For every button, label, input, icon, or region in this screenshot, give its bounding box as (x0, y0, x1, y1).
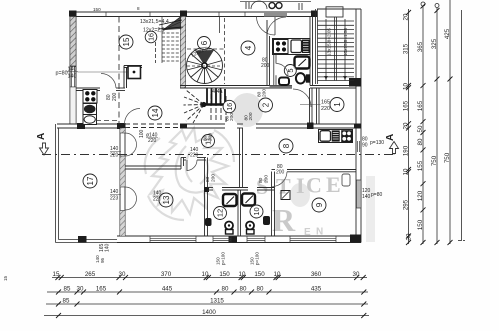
svg-text:10: 10 (274, 271, 281, 278)
kitchen8 counter (319, 130, 353, 143)
svg-text:30: 30 (353, 271, 360, 278)
kitchen8 drainer (332, 130, 340, 141)
svg-text:A: A (385, 134, 396, 141)
section line right jog (393, 150, 395, 155)
svg-text:80: 80 (205, 176, 211, 182)
svg-text:14: 14 (151, 108, 160, 117)
porch twin circles (269, 3, 282, 9)
svg-text:150: 150 (93, 7, 101, 12)
V4 labels (444, 28, 451, 163)
svg-text:315: 315 (403, 43, 410, 54)
svg-text:1315: 1315 (210, 298, 224, 305)
svg-text:p=100: p=100 (255, 252, 260, 265)
row2 labels (64, 286, 322, 293)
V2 ticks (421, 4, 426, 246)
svg-text:220: 220 (190, 153, 199, 159)
section A left arrow (40, 143, 49, 155)
room 1 (330, 98, 344, 112)
stall10 toilet (246, 222, 254, 230)
room9 small box (281, 191, 290, 200)
spiral dense top wedge (195, 50, 214, 66)
L-wall corner x124 (124, 66, 142, 89)
label 140/223 left lower (110, 189, 119, 202)
wall room4/bath5 x267 (267, 20, 270, 86)
svg-text:p=80: p=80 (371, 192, 382, 198)
svg-text:150: 150 (417, 219, 424, 230)
stall10 shower (242, 194, 255, 206)
room 6 (198, 37, 211, 50)
svg-text:p=100: p=100 (221, 252, 226, 265)
svg-text:165: 165 (403, 100, 410, 111)
room 15 (119, 35, 133, 49)
svg-text:10: 10 (252, 207, 261, 215)
watermark right bar (366, 176, 375, 242)
svg-text:325: 325 (431, 38, 438, 49)
bottom wall inner line (117, 235, 361, 237)
stove 4 burners (83, 90, 97, 104)
floor wall B y124 (57, 124, 361, 128)
room 8 (279, 139, 293, 153)
top wall block right (311, 11, 317, 18)
terrace bottom rail (56, 240, 118, 243)
window label 120/140 p=80 (362, 188, 382, 200)
stall12 toilet (225, 222, 233, 230)
hall/room8 wall x241 (240, 128, 243, 188)
svg-text:95: 95 (100, 257, 105, 263)
left wall inner line (75, 17, 77, 125)
svg-text:80: 80 (258, 177, 264, 183)
room 9 (312, 198, 326, 212)
sink white oval (83, 115, 97, 125)
door room2 top arc (293, 89, 311, 107)
row3 labels (63, 298, 225, 305)
faint top texts (93, 6, 244, 12)
room8/room9 wall C y169.5 (272, 170, 357, 172)
svg-text:200: 200 (262, 89, 268, 97)
window right wall kitchen (358, 141, 360, 152)
svg-text:365: 365 (417, 41, 424, 52)
terrace door arcs lower pair (125, 187, 137, 210)
svg-text:120: 120 (417, 190, 424, 201)
stair divider (334, 17, 336, 81)
left wall hatched segment (70, 17, 76, 67)
watermark blob (231, 93, 263, 127)
svg-text:p=130: p=130 (370, 140, 384, 146)
svg-text:30: 30 (119, 271, 126, 278)
room 16 (145, 31, 157, 43)
door room9 arc (272, 172, 287, 187)
svg-text:80: 80 (257, 286, 264, 293)
stair flight arrowheads (324, 76, 328, 80)
svg-text:13x15,8=2,05: 13x15,8=2,05 (327, 28, 332, 56)
label 80/200 winder left (225, 115, 231, 121)
stair top landing notch (326, 7, 343, 17)
label 80/200 room2 top (257, 89, 268, 97)
svg-text:p=80: p=80 (56, 71, 68, 77)
top wall outer line (70, 11, 317, 13)
svg-text:17: 17 (86, 176, 95, 185)
door room11 to room13 leaf+arc (186, 160, 188, 171)
nook door arc (101, 73, 116, 88)
V1 labels (403, 13, 413, 240)
svg-text:155: 155 (417, 160, 424, 171)
wall room1 left x317 (317, 89, 320, 125)
watermark letters EN (304, 227, 323, 239)
svg-text:10: 10 (403, 83, 410, 90)
left wall window 140/140 (70, 66, 76, 87)
stair16 walking line dashed (155, 42, 157, 63)
svg-text:90: 90 (362, 143, 368, 149)
kitchen8 stove (341, 130, 352, 142)
dim line V2 (422, 6, 424, 244)
svg-text:200: 200 (261, 63, 270, 69)
kitchen8 sink (320, 131, 331, 142)
kitchen stove 4 burners (274, 40, 289, 54)
terrace bottom pillar (78, 236, 87, 243)
top wall window ticks (106, 12, 245, 17)
svg-text:1400: 1400 (202, 309, 216, 316)
row1 labels (53, 271, 360, 278)
spiral dashed diameter (187, 65, 223, 67)
svg-text:750: 750 (431, 155, 438, 166)
svg-text:80: 80 (417, 138, 424, 145)
entrance door arc (257, 17, 276, 36)
stall door labels 80/200 (205, 174, 217, 182)
porch door arc (251, 1, 267, 9)
svg-text:4,4a: 4,4a (212, 89, 223, 95)
V2 labels (417, 41, 424, 230)
svg-text:12: 12 (216, 209, 225, 217)
dim line V4 (449, 0, 451, 244)
room 14 (148, 106, 162, 120)
room13 top wall stepped (124, 158, 206, 170)
svg-text:C: C (306, 173, 322, 198)
svg-text:20: 20 (403, 13, 410, 20)
wall bath5/hall x311 (310, 17, 313, 86)
room 2 (259, 98, 273, 112)
porch top edge (240, 1, 311, 3)
bottom wall window room9 (290, 236, 336, 243)
kitchen sink basin (291, 40, 302, 53)
label 80/220 room2 bottom (243, 116, 249, 122)
svg-text:100: 100 (139, 129, 145, 138)
top wall inner line (70, 16, 317, 18)
V2 top circle (421, 2, 425, 6)
label 165/140 bottom (99, 243, 111, 252)
svg-text:50: 50 (417, 125, 424, 132)
room 11 (202, 135, 215, 148)
bottom wall block mid (229, 237, 238, 243)
building left wall lower x120 (120, 128, 125, 236)
svg-text:223: 223 (110, 196, 119, 202)
wall A block at stair (349, 78, 361, 87)
door label 80/200 bath5 (261, 58, 270, 70)
right wall inner line (355, 9, 357, 236)
label o140/220 upper (146, 133, 158, 145)
section A right arrow (390, 142, 399, 154)
svg-text:30: 30 (77, 286, 84, 293)
svg-text:200: 200 (211, 174, 217, 182)
V3 ticks (435, 8, 440, 245)
door arc room4 top (267, 17, 286, 36)
label 80/200 hall right (203, 133, 214, 141)
bath5 left wall (274, 55, 276, 86)
dim row1 (52, 277, 367, 279)
svg-text:295: 295 (403, 199, 410, 210)
svg-text:370: 370 (161, 271, 172, 278)
svg-text:435: 435 (311, 286, 322, 293)
svg-text:150: 150 (219, 271, 230, 278)
wall room2/room1 x310 (310, 88, 313, 124)
stall10 sink (263, 216, 270, 225)
svg-text:T: T (276, 174, 291, 199)
room9 corner box right (342, 174, 350, 186)
svg-text:10: 10 (239, 271, 246, 278)
V1 ticks (406, 10, 411, 245)
svg-text:220: 220 (110, 153, 119, 159)
svg-text:265: 265 (85, 271, 96, 278)
svg-text:6: 6 (200, 40, 209, 45)
dim row3 (46, 303, 368, 305)
stall12 sink (205, 218, 212, 226)
label 165/220 room1 (321, 100, 330, 113)
stair bottom edge (318, 80, 355, 82)
spiral spokes (204, 66, 206, 84)
svg-text:200: 200 (276, 170, 285, 176)
dim line V3 (436, 8, 438, 244)
section line A-A (42, 154, 394, 156)
watermark ornament flourish (145, 128, 234, 220)
watermark letters STICE (256, 172, 341, 199)
mid horizontal wall A y85.5 (180, 86, 356, 89)
room 4 (241, 41, 255, 55)
top wall gray segment (264, 12, 287, 17)
bath5 toilet (296, 73, 305, 83)
stair flight lines (325, 19, 327, 81)
sink dark oval (83, 104, 97, 115)
door labels 80/200 room9 (276, 164, 285, 176)
svg-text:80: 80 (222, 286, 229, 293)
kitchen counter outline (273, 39, 311, 55)
svg-text:165: 165 (417, 100, 424, 111)
left wall lower segment (70, 87, 76, 124)
row2 ticks (56, 290, 366, 295)
stair16 dense hub (164, 16, 181, 30)
svg-text:2: 2 (261, 102, 270, 107)
svg-text:165: 165 (321, 100, 330, 106)
room12 circle (214, 207, 227, 220)
room 13 (159, 193, 173, 207)
circle 16b (223, 100, 235, 112)
svg-text:750: 750 (444, 152, 451, 163)
dashed projection x119 (118, 17, 120, 125)
svg-text:15: 15 (53, 271, 60, 278)
winder handrail thick (204, 103, 227, 106)
svg-text:1: 1 (333, 102, 342, 107)
spiral circle (187, 48, 223, 84)
bottom wall block right corner (350, 235, 361, 243)
V5 end dash (458, 240, 465, 242)
stair left wall x315 (316, 9, 318, 84)
svg-text:9: 9 (315, 202, 324, 207)
right wall outer line (360, 9, 362, 243)
svg-text:190: 190 (403, 145, 410, 156)
entrance door leaf (274, 17, 276, 36)
stair treads (318, 20, 355, 22)
row4 ticks (56, 313, 366, 318)
svg-text:140: 140 (362, 194, 371, 200)
room10 circle (250, 205, 263, 218)
bottom wall window stall10 (247, 236, 265, 243)
door arc bath5 (276, 64, 288, 76)
svg-text:16: 16 (227, 103, 234, 111)
svg-text:4: 4 (244, 45, 253, 50)
wall A gray fill under bath5 (270, 86, 293, 89)
stair top outer line (317, 8, 361, 10)
V4 ticks (448, 77, 453, 246)
svg-text:85: 85 (63, 298, 70, 305)
bath5 sink (279, 78, 289, 86)
svg-text:8: 8 (137, 6, 140, 11)
svg-text:360: 360 (311, 271, 322, 278)
svg-text:10: 10 (202, 271, 209, 278)
svg-text:165: 165 (96, 286, 107, 293)
svg-text:15: 15 (122, 37, 131, 46)
svg-text:30: 30 (406, 233, 413, 240)
svg-text:200: 200 (229, 113, 235, 121)
door arc room14 to room13 (125, 109, 141, 125)
dim row4 (44, 315, 369, 317)
room5 circle (284, 65, 296, 77)
left wall outer line (69, 12, 71, 124)
svg-text:E: E (326, 172, 341, 197)
svg-text:20: 20 (403, 122, 410, 129)
bath stalls top wall y188 (208, 188, 275, 191)
svg-text:80: 80 (240, 286, 247, 293)
svg-text:220: 220 (321, 106, 330, 112)
winder treads vertical (210, 94, 212, 122)
svg-text:220: 220 (148, 138, 157, 144)
label p=80 140/140 (56, 67, 77, 80)
winder hub dot (201, 102, 206, 107)
svg-text:8: 8 (282, 143, 291, 148)
svg-text:16: 16 (148, 33, 155, 41)
svg-text:A: A (36, 133, 47, 140)
label 80/200 below winder A (230, 118, 231, 123)
top wall corner block left (69, 11, 77, 17)
svg-text:150: 150 (254, 271, 265, 278)
svg-text:140: 140 (68, 74, 77, 80)
bottom wall outer line (117, 242, 361, 244)
bottom wall window room13 (150, 236, 196, 243)
stall divider x239 (238, 190, 241, 236)
room9 window right (356, 180, 361, 208)
nook door label 80/200 (106, 92, 118, 101)
small vertical labels below bottom wall (3, 252, 260, 281)
winder top dense treads (207, 89, 225, 105)
room 17 (83, 174, 97, 188)
porch railing ticks (246, 2, 302, 10)
stair16 fan hub lines (163, 17, 181, 30)
svg-text:445: 445 (162, 286, 173, 293)
svg-text:85: 85 (64, 286, 71, 293)
row1 ticks (55, 275, 365, 280)
kitchen drainer dark (302, 40, 310, 54)
bottom wall window stall12 (213, 236, 231, 243)
svg-text:200: 200 (112, 92, 118, 101)
label 140/220 lower (153, 191, 162, 203)
label 140/220 left upper (110, 146, 119, 159)
window label 80/90 p=130 (362, 137, 384, 149)
dim line V5 (461, 10, 463, 241)
V3 labels (431, 38, 438, 166)
label 140/220 hall (190, 147, 199, 159)
dim row2 (47, 291, 368, 293)
svg-text:R: R (272, 202, 296, 238)
row3 ticks (56, 302, 366, 307)
svg-text:200: 200 (248, 112, 254, 120)
svg-text:200: 200 (208, 133, 214, 141)
svg-text:10: 10 (403, 168, 410, 175)
chimney square with dot (128, 66, 141, 79)
svg-text:10x15,8=1,58: 10x15,8=1,58 (343, 28, 348, 56)
svg-text:425: 425 (444, 28, 451, 39)
terrace left rail (56, 124, 59, 243)
V3 top circle (435, 4, 439, 8)
svg-text:13: 13 (162, 195, 171, 204)
bath5 shower (295, 57, 310, 69)
svg-text:140: 140 (105, 243, 111, 252)
svg-text:15: 15 (3, 275, 8, 281)
room13/bath wall x206 (205, 158, 208, 237)
bath wall junction block (204, 187, 209, 192)
spiral hub (202, 63, 207, 68)
svg-text:I: I (296, 173, 305, 198)
wall room15/stair16 x180 (181, 17, 186, 89)
bath/room9 wall x273 (272, 172, 275, 237)
dashed nook line (96, 120, 120, 122)
top wall block mid (180, 11, 187, 17)
dim line V1 (408, 9, 410, 244)
winder radial treads dashed (184, 90, 204, 123)
stall12 shower (223, 194, 237, 206)
railing line room6 top (219, 17, 221, 34)
stair16 treads dashed (162, 33, 181, 61)
nook wall y88 with door (76, 88, 125, 91)
terrace door arcs upper pair (125, 133, 137, 156)
wall B pillar blocks (77, 123, 85, 129)
svg-text:200: 200 (264, 175, 270, 183)
spiral dashed enclosure (187, 18, 225, 84)
